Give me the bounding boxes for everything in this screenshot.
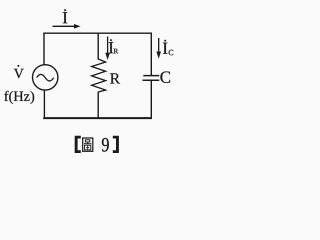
current arrow I_R head — [105, 53, 110, 60]
current arrow I_R (downward) shaft — [107, 37, 109, 56]
current arrow I head — [74, 24, 81, 29]
current arrow I (top, rightward) shaft — [53, 25, 76, 27]
label R subscript of I_R — [114, 49, 119, 54]
caption CJK character 'tu' (figure), drawn strokes — [83, 138, 93, 151]
wire: left branch upper segment (top wire down to source) — [43, 33, 45, 65]
caption digit 9 — [102, 138, 109, 152]
label I-dot (total current) — [63, 9, 67, 23]
label I-dot of current I_R — [109, 39, 113, 53]
dot accent over V — [17, 65, 19, 67]
wire: R branch upper segment — [97, 33, 99, 60]
label C (capacitor value) — [160, 71, 170, 82]
capacitor C bottom plate — [143, 79, 160, 81]
wire: C branch upper segment — [150, 33, 152, 76]
AC source sine wave — [37, 74, 54, 81]
AC source circle — [33, 65, 58, 90]
current arrow I_C (downward) shaft — [158, 38, 160, 54]
caption right lenticular bracket — [113, 136, 119, 153]
current arrow I_C head — [156, 52, 161, 59]
wire: left branch lower segment (source down to bottom wire) — [43, 90, 45, 119]
wire: R branch lower segment — [97, 92, 99, 119]
capacitor C top plate — [143, 75, 159, 77]
wire: top horizontal node (source to R to C) — [43, 32, 151, 34]
label I-dot of current I_C — [163, 40, 167, 54]
label C subscript of I_C — [169, 50, 174, 55]
caption left lenticular bracket — [75, 136, 81, 153]
wire: bottom horizontal return — [43, 117, 152, 119]
label f(Hz) (source frequency) — [4, 91, 34, 104]
label V (source voltage) — [14, 69, 24, 78]
resistor R zigzag body — [92, 59, 106, 92]
wire: C branch lower segment — [150, 80, 152, 118]
label R (resistor value) — [110, 73, 120, 83]
